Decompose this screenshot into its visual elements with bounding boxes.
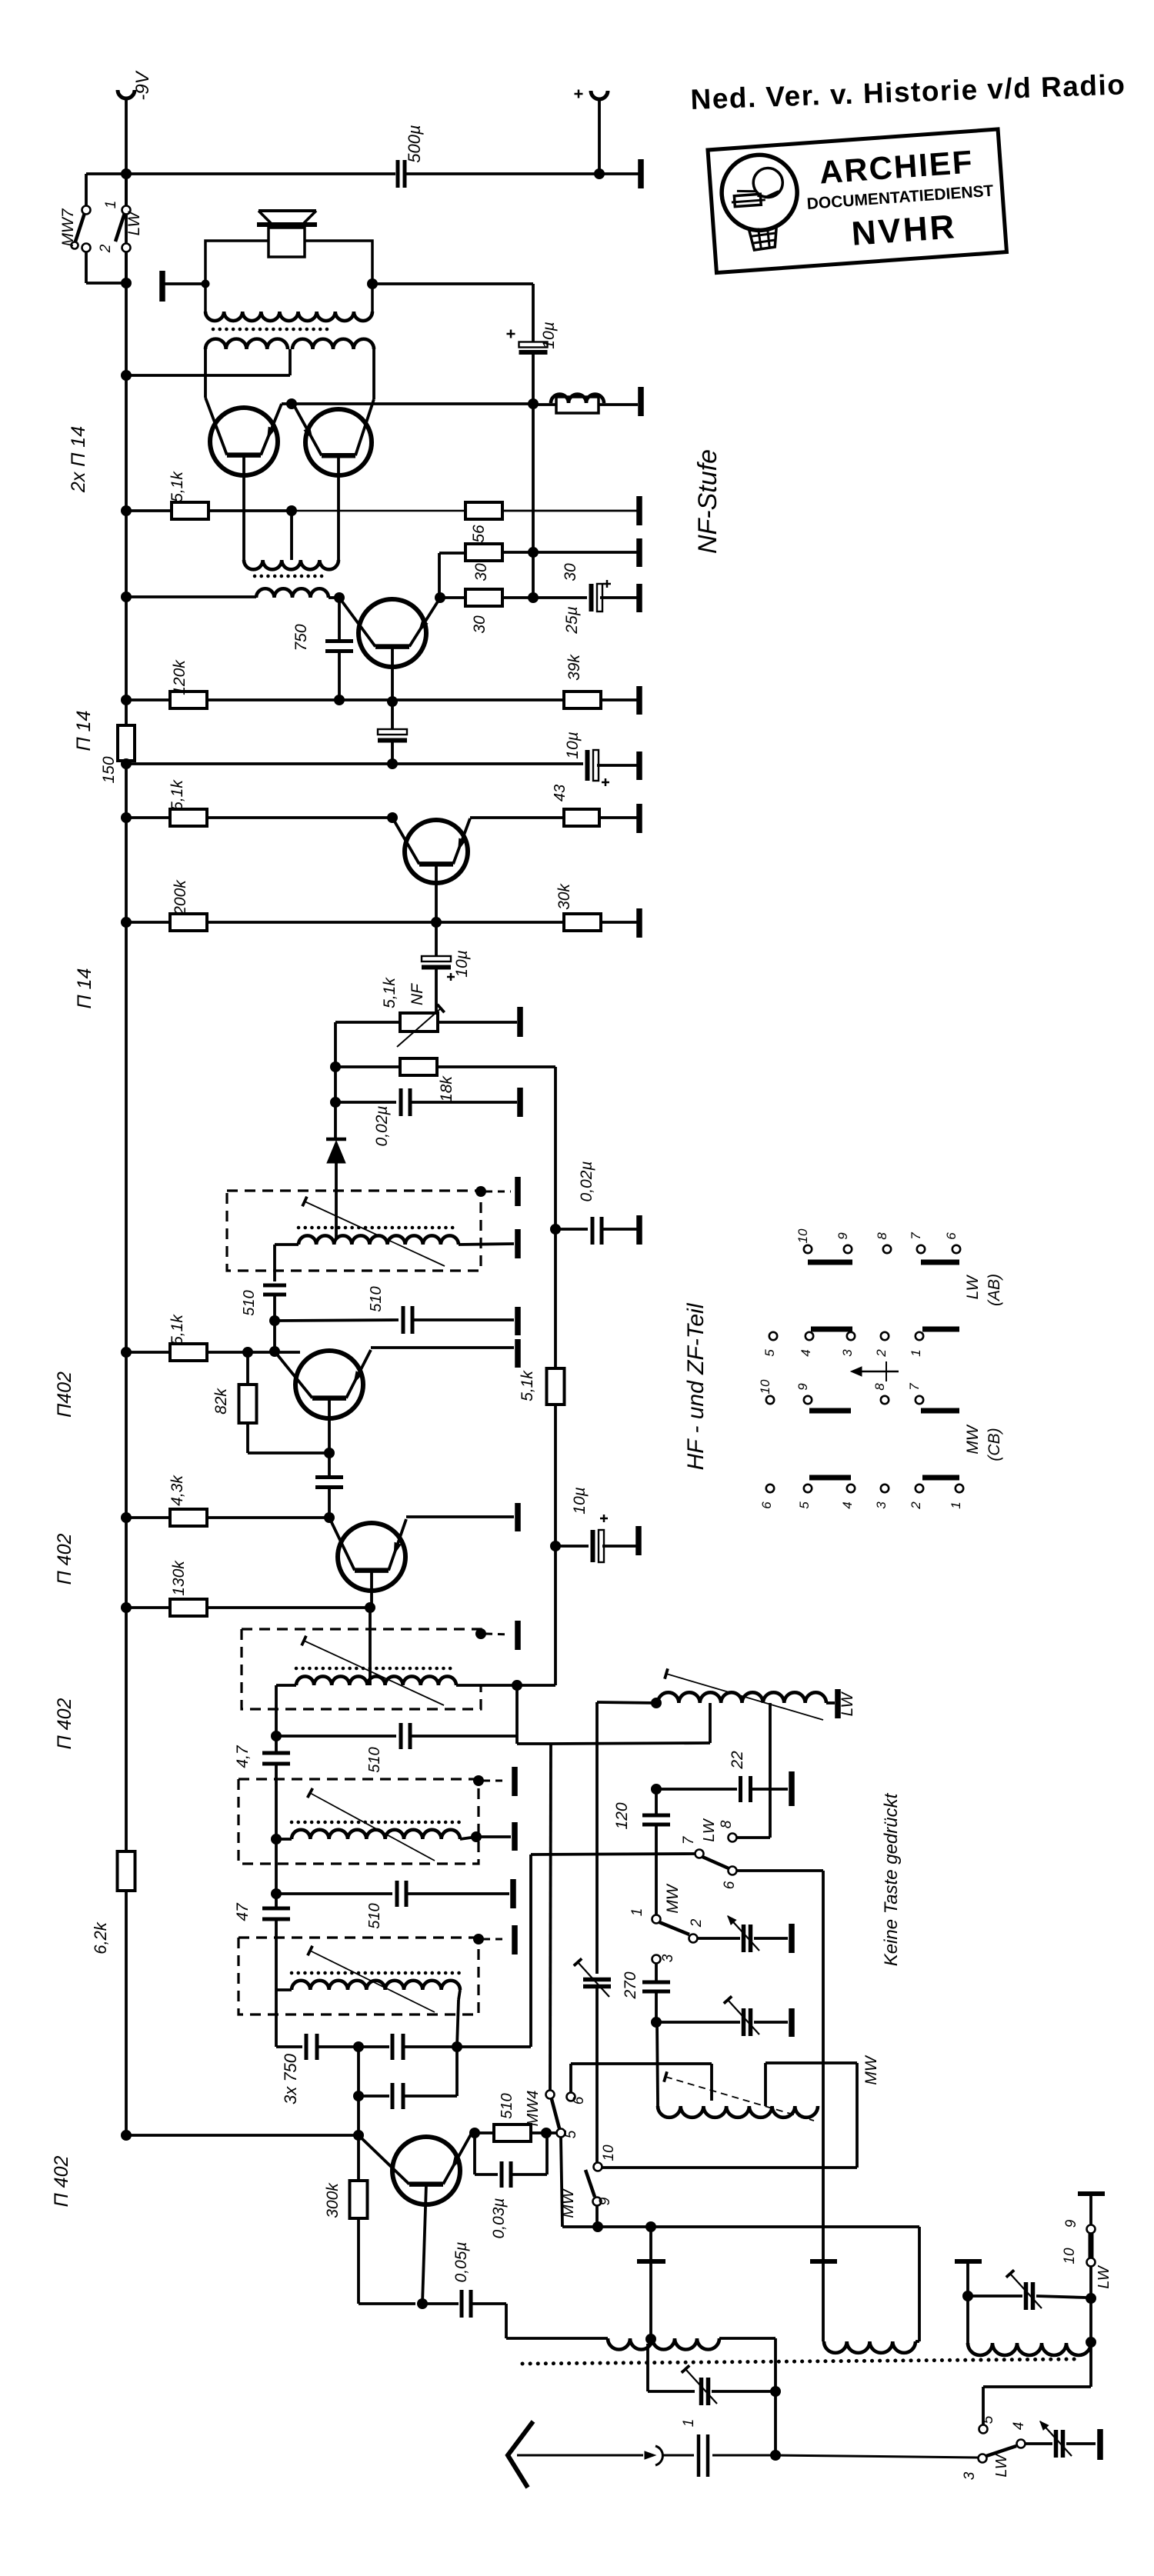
svg-text:7: 7	[681, 1835, 697, 1845]
svg-text:LW: LW	[993, 2453, 1010, 2477]
svg-text:3: 3	[874, 1501, 889, 1509]
svg-text:150: 150	[100, 756, 118, 783]
svg-text:5,1k: 5,1k	[381, 977, 399, 1008]
svg-text:LW: LW	[964, 1274, 982, 1299]
svg-text:LW: LW	[125, 210, 143, 235]
svg-text:25µ: 25µ	[563, 606, 581, 634]
svg-text:1: 1	[629, 1908, 645, 1917]
svg-text:82k: 82k	[212, 1388, 230, 1415]
svg-text:MW: MW	[664, 1883, 682, 1913]
svg-text:10µ: 10µ	[571, 1487, 589, 1514]
svg-text:2: 2	[909, 1501, 923, 1510]
svg-text:500µ: 500µ	[405, 125, 424, 162]
svg-text:2x П 14: 2x П 14	[68, 426, 89, 493]
svg-text:NVHR: NVHR	[850, 208, 958, 253]
svg-text:2: 2	[689, 1918, 705, 1928]
svg-text:3x 750: 3x 750	[281, 2053, 300, 2104]
svg-text:5,1k: 5,1k	[168, 779, 186, 811]
svg-text:5,1k: 5,1k	[519, 1370, 536, 1401]
svg-text:3: 3	[962, 2471, 978, 2480]
svg-text:0,05µ: 0,05µ	[452, 2242, 470, 2283]
svg-text:510: 510	[499, 2093, 515, 2118]
svg-text:9: 9	[1063, 2219, 1079, 2228]
svg-text:П 402: П 402	[54, 1698, 75, 1750]
svg-text:10: 10	[601, 2144, 617, 2161]
svg-text:1: 1	[949, 1501, 963, 1508]
svg-text:10µ: 10µ	[453, 950, 471, 977]
svg-text:NF-Stufe: NF-Stufe	[693, 449, 722, 554]
svg-text:3: 3	[840, 1349, 855, 1357]
svg-text:1: 1	[103, 201, 119, 209]
svg-text:MW7: MW7	[59, 208, 77, 246]
svg-text:6: 6	[571, 2096, 587, 2104]
svg-text:6: 6	[722, 1881, 738, 1889]
svg-text:510: 510	[366, 1747, 383, 1772]
svg-text:NF: NF	[409, 983, 426, 1005]
svg-text:MW: MW	[862, 2054, 880, 2084]
svg-text:10µ: 10µ	[540, 322, 558, 348]
svg-text:47: 47	[234, 1902, 252, 1921]
svg-text:MW4: MW4	[525, 2091, 542, 2127]
svg-text:4: 4	[840, 1501, 855, 1508]
svg-text:5: 5	[980, 2415, 996, 2424]
svg-text:8: 8	[872, 1383, 887, 1391]
svg-text:П 402: П 402	[51, 2156, 72, 2208]
svg-text:4: 4	[799, 1349, 813, 1356]
svg-text:750: 750	[292, 624, 310, 651]
svg-text:5: 5	[762, 1349, 777, 1357]
svg-text:8: 8	[875, 1232, 889, 1240]
svg-text:30: 30	[471, 615, 489, 634]
svg-text:8: 8	[719, 1820, 735, 1828]
svg-text:120k: 120k	[171, 659, 188, 695]
svg-text:0,03µ: 0,03µ	[490, 2198, 508, 2239]
svg-text:(AB): (AB)	[986, 1274, 1003, 1306]
svg-text:18k: 18k	[438, 1075, 455, 1102]
svg-text:6: 6	[944, 1232, 959, 1240]
svg-text:5: 5	[563, 2130, 579, 2138]
svg-text:9: 9	[597, 2197, 613, 2205]
svg-text:П402: П402	[54, 1371, 75, 1418]
svg-text:510: 510	[241, 1290, 258, 1315]
svg-text:10: 10	[795, 1228, 810, 1243]
svg-text:3: 3	[660, 1954, 676, 1962]
svg-text:30: 30	[562, 563, 579, 582]
svg-text:7: 7	[907, 1383, 922, 1391]
svg-text:(CB): (CB)	[986, 1428, 1003, 1461]
svg-text:1: 1	[681, 2419, 697, 2428]
svg-text:43: 43	[552, 785, 569, 801]
svg-text:9: 9	[795, 1383, 810, 1391]
svg-text:300k: 300k	[324, 2182, 342, 2218]
svg-text:LW: LW	[839, 1691, 856, 1716]
svg-text:9: 9	[835, 1232, 850, 1240]
svg-text:10: 10	[1062, 2248, 1078, 2264]
svg-text:1: 1	[909, 1349, 923, 1356]
svg-text:MW: MW	[559, 2188, 577, 2218]
svg-text:200k: 200k	[172, 879, 189, 916]
svg-text:22: 22	[729, 1751, 746, 1770]
svg-text:5,1k: 5,1k	[168, 1314, 186, 1345]
svg-text:-9V: -9V	[132, 70, 153, 100]
svg-text:7: 7	[909, 1232, 923, 1240]
svg-text:510: 510	[368, 1286, 385, 1311]
svg-text:LW: LW	[701, 1818, 718, 1841]
svg-text:4: 4	[1011, 2422, 1027, 2431]
svg-text:4,7: 4,7	[234, 1745, 252, 1768]
svg-text:10µ: 10µ	[564, 731, 582, 758]
svg-text:4,3k: 4,3k	[168, 1475, 186, 1506]
svg-text:2: 2	[98, 244, 114, 253]
svg-text:120: 120	[613, 1802, 631, 1829]
svg-text:HF - und ZF-Teil: HF - und ZF-Teil	[683, 1302, 709, 1470]
svg-text:30k: 30k	[555, 883, 573, 910]
svg-text:5: 5	[797, 1501, 812, 1509]
svg-text:LW: LW	[1096, 2264, 1112, 2288]
svg-text:270: 270	[622, 1971, 639, 1999]
svg-text:MW: MW	[964, 1424, 982, 1454]
svg-text:0,02µ: 0,02µ	[373, 1106, 391, 1147]
svg-text:6: 6	[759, 1501, 774, 1509]
svg-text:П 402: П 402	[54, 1534, 75, 1585]
svg-text:2: 2	[874, 1349, 889, 1358]
svg-text:39k: 39k	[565, 654, 583, 681]
svg-text:130k: 130k	[170, 1560, 188, 1596]
svg-text:Keine Taste gedrückt: Keine Taste gedrückt	[881, 1792, 902, 1966]
svg-text:0,02µ: 0,02µ	[578, 1161, 595, 1202]
svg-text:510: 510	[366, 1903, 383, 1928]
svg-text:П 14: П 14	[73, 711, 95, 751]
svg-text:П 14: П 14	[74, 968, 95, 1009]
svg-text:6,2k: 6,2k	[91, 1921, 110, 1954]
svg-text:5,1k: 5,1k	[168, 471, 186, 502]
svg-text:30: 30	[472, 563, 490, 582]
svg-text:56: 56	[470, 525, 488, 543]
svg-text:10: 10	[758, 1379, 772, 1394]
